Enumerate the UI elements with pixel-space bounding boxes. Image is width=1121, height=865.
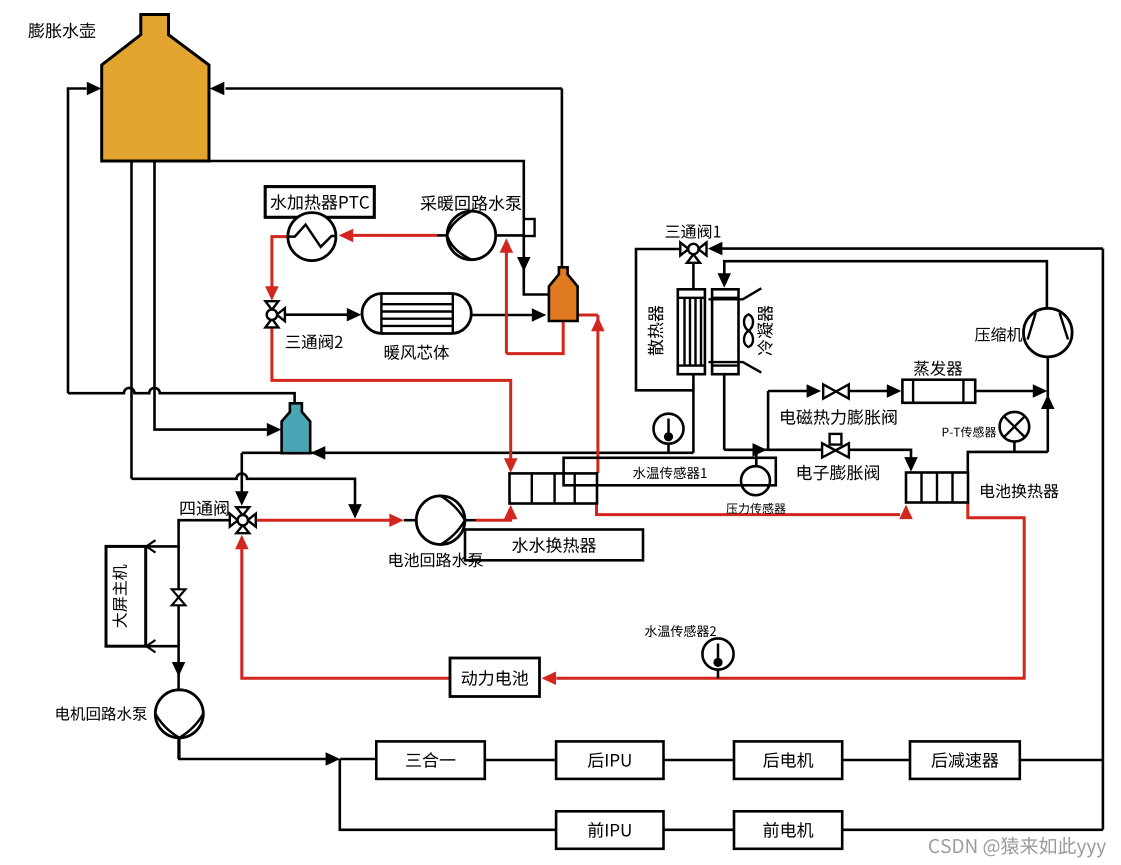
wire tank outlet to heating pump riser x=523.8 (209, 161, 524, 235)
wire rear IPU to rear motor (664, 759, 735, 762)
wire compressor discharge to condenser top (724, 261, 1047, 308)
head unit box 大屏主机 (106, 546, 146, 646)
pressure sensor circle 压力传感器 (741, 466, 770, 495)
3-in-1 box 三合一 (376, 741, 485, 779)
wire front IPU to front motor (664, 828, 735, 831)
wire tank bottom right drop x=154.5 to blue bottle inlet (155, 161, 268, 430)
wire head-unit bottom tap with open arrow (148, 645, 179, 648)
wire into 3-in-1 box (340, 758, 376, 761)
red wire orange bottle bottom to pump tap (506, 321, 563, 354)
label 前电机 (764, 822, 814, 838)
wire compressor suction drop (1047, 357, 1050, 452)
P-T sensor circle (1000, 412, 1030, 442)
condenser 冷凝器 (712, 289, 738, 374)
battery heat exchanger 电池换热器 (906, 473, 968, 503)
compressor 压缩机 (1024, 308, 1073, 357)
rear reducer box 后减速器 (910, 741, 1020, 779)
red wire pump outlet tap riser x=506 with up arrow (505, 252, 508, 354)
wire tank left inlet from vertical riser x=68 (68, 89, 87, 394)
wire P-T sensor stem (1013, 442, 1016, 452)
water temp sensor 2 circle thermometer (702, 638, 733, 669)
wire junction riser x=768 between both expansion valve branches (767, 391, 770, 450)
label 采暖回路水泵 (421, 195, 522, 211)
label 冷凝器 rotated (757, 305, 773, 355)
wire return header from rear driveline to three-way valve 1 (722, 247, 1103, 250)
PTC water heater circle with zigzag (288, 213, 336, 261)
four-way valve 四通阀 (236, 507, 249, 515)
wire pressure sensor stem (755, 450, 758, 467)
wire branch down to front IPU (340, 759, 556, 830)
wire tank right inlet from orange-bottle riser (226, 87, 562, 90)
wire y=479 run with hop, drop to battery-pump suction line (132, 474, 356, 506)
wire heating pump suction stub (437, 234, 447, 237)
power battery box 动力电池 (450, 658, 540, 697)
label 后IPU (588, 752, 631, 768)
label 前IPU (588, 822, 630, 838)
wire three-way valve 1 left branch down to radiator outlet (636, 249, 693, 390)
radiator 散热器 (678, 289, 705, 374)
watermark CSDN @猿来如此yyy (929, 837, 1106, 857)
wire front motor to return riser (842, 828, 1103, 831)
wire thermal expansion valve to evaporator (849, 390, 888, 393)
wire rear reducer to return riser (1020, 759, 1103, 762)
three-way valve 2 三通阀2 (265, 301, 278, 310)
water-water exchanger label box (465, 530, 643, 561)
label 膨胀水壶 (28, 23, 95, 39)
front IPU box 前IPU (556, 811, 663, 849)
label 电池回路水泵 (390, 553, 483, 568)
heating loop pump 采暖回路水泵 (447, 211, 496, 260)
orange coolant bottle (549, 267, 578, 321)
label P-T传感器 (943, 426, 996, 437)
wire branch to thermal expansion valve (768, 390, 807, 393)
wire rear motor to rear reducer (842, 759, 910, 762)
label 电池换热器 (981, 484, 1059, 499)
wire main water line to blue bottle (242, 451, 694, 454)
PTC heater label box 水加热器PTC (265, 187, 374, 218)
red wire three-way valve 2 bottom branch to water-water exchanger (272, 327, 511, 459)
wire radiator outlet drop to water line (692, 374, 695, 453)
label 三通阀1 (666, 224, 721, 239)
wire condenser outlet run to expansion-valve junction (724, 448, 822, 451)
red wire power battery to four-way valve bottom (242, 548, 450, 678)
electronic expansion valve 电子膨胀阀 (830, 434, 842, 445)
wire water temp sensor 1 stem (667, 444, 670, 453)
expansion tank 膨胀水壶 (102, 15, 209, 162)
wire riser from orange bottle neck to top line (561, 89, 564, 268)
label 动力电池 (462, 670, 528, 686)
evaporator 蒸发器 (902, 380, 975, 403)
water-water heat exchanger cells 水水换热器 (510, 473, 598, 503)
wire battery heat exchanger outlet to suction line (968, 452, 1048, 473)
wire 3-in-1 to rear IPU (485, 759, 556, 762)
red wire heating pump to PTC heater (353, 234, 438, 237)
rear IPU box 后IPU (556, 741, 663, 779)
wire heater core outlet to orange bottle (471, 314, 532, 317)
red wire four-way valve to battery pump (256, 519, 391, 522)
wire evaporator outlet to compressor suction (975, 390, 1034, 393)
blue coolant bottle (282, 403, 311, 453)
wire tank bottom left drop x=131.5 (130, 161, 133, 479)
label 水水换热器 (512, 537, 596, 553)
label 电磁热力膨胀阀 (781, 409, 896, 425)
rear motor box 后电机 (734, 741, 842, 779)
condenser fan blade symbol (744, 314, 753, 347)
red wire water temp sensor 2 stem junction (717, 670, 720, 679)
label 三合一 (406, 752, 455, 768)
wire motor pump outlet bottom run (179, 738, 326, 759)
label 后电机 (763, 752, 813, 768)
label 四通阀 (180, 500, 228, 515)
wire right return riser x=1103 (1102, 249, 1105, 830)
wire blue bottle drop to four-way valve top (241, 453, 244, 493)
label 压力传感器 (726, 503, 785, 514)
three-way valve 1 三通阀1 (680, 243, 688, 256)
label 水温传感器2 (645, 625, 716, 637)
red wire orange bottle right port riser x=598 to water-water exchanger (578, 314, 598, 317)
label 压缩机 (975, 327, 1022, 342)
label 水加热器PTC (271, 194, 370, 210)
label 电子膨胀阀 (798, 465, 879, 481)
label 暖风芯体 (385, 345, 449, 360)
label 后减速器 (931, 752, 998, 768)
red wire water-water exchanger out to battery heat exchanger (597, 504, 901, 515)
connector tab on heating pump riser (524, 219, 535, 236)
electromagnetic thermal expansion valve 电磁热力膨胀阀 (823, 384, 836, 398)
wire lower-left run y=393 with crossover hops to blue bottle neck (68, 388, 295, 403)
label 三通阀2 (286, 334, 343, 349)
red wire PTC heater to three-way valve 2 (272, 237, 288, 288)
wire heating pump outlet drop to orange bottle (524, 235, 549, 294)
water temp sensor 1 circle thermometer (654, 414, 684, 444)
label 大屏主机 rotated (112, 565, 127, 628)
wire electronic expansion valve to battery heat exchanger (849, 450, 911, 460)
red wire battery heat exchanger out down the right side (556, 503, 1024, 679)
label 散热器 rotated (648, 305, 664, 355)
wire four-way valve left port to motor loop (179, 520, 230, 759)
red wire battery pump outlet to water-water exchanger bottom (465, 519, 476, 522)
water temp sensor 1 label box 水温传感器1 (564, 458, 776, 486)
label 电机回路水泵 (56, 706, 146, 720)
label 蒸发器 (914, 361, 962, 376)
motor loop pump 电机回路水泵 (155, 690, 203, 738)
wire heating pump discharge to riser (496, 234, 524, 237)
battery loop pump 电池回路水泵 (416, 496, 465, 545)
heater core 暖风芯体 capsule (362, 294, 471, 334)
wire condenser outlet drop (723, 374, 726, 450)
label 水温传感器1 (633, 467, 707, 479)
wire three-way valve 2 to heater core (285, 313, 348, 316)
front motor box 前电机 (734, 811, 842, 849)
check valve symbol on motor loop (172, 589, 186, 597)
wire head-unit top tap with open arrow (148, 545, 179, 548)
wire three-way valve 1 bottom port to radiator (692, 263, 695, 290)
condenser fan shroud louvers (709, 288, 762, 299)
